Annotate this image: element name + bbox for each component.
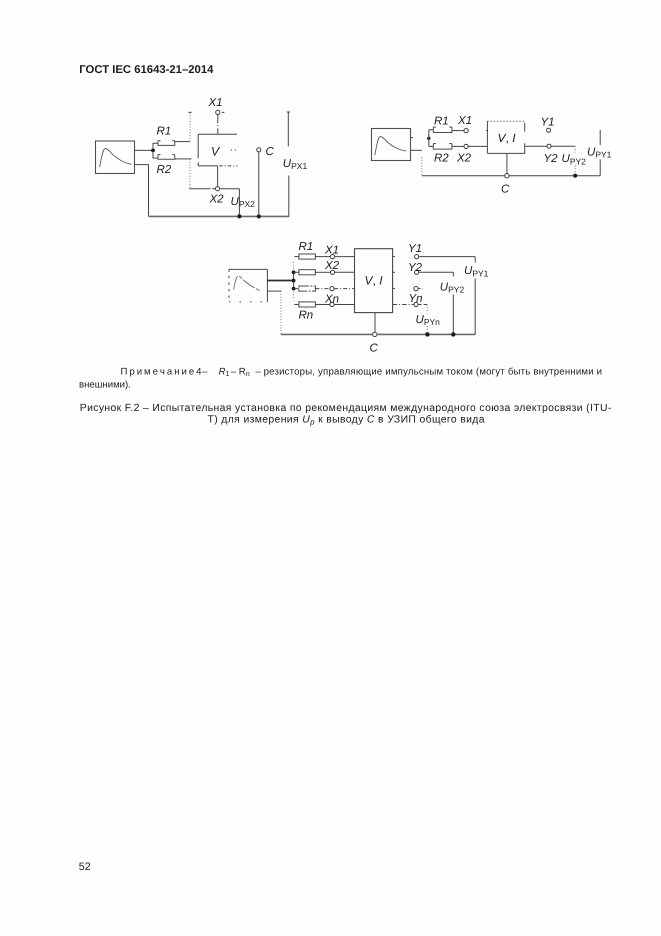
resistor R2 (circuit 3) bbox=[294, 270, 316, 275]
svg-text:UPX1: UPX1 bbox=[283, 158, 308, 171]
terminal Y1 (circuit 3) bbox=[415, 255, 419, 259]
svg-text:R2: R2 bbox=[434, 153, 449, 165]
wire X2 to V,I box (circuit 3) bbox=[335, 271, 355, 273]
svg-text:52: 52 bbox=[79, 861, 91, 873]
svg-text:внешними).: внешними). bbox=[79, 380, 131, 391]
svg-text:Y1: Y1 bbox=[408, 243, 422, 255]
svg-text:X1: X1 bbox=[324, 244, 339, 256]
svg-text:Рисунок F.2 – Испытательная ус: Рисунок F.2 – Испытательная установка по… bbox=[80, 403, 612, 414]
junction dot X2 branch on rail bbox=[237, 214, 241, 218]
wire G1 upper output bbox=[135, 149, 153, 151]
resistor R1 (circuit 3) bbox=[294, 254, 315, 259]
svg-text:X2: X2 bbox=[209, 193, 225, 205]
wire junction to R2 bbox=[153, 152, 158, 159]
wire X2 down to rail bbox=[238, 189, 240, 217]
wire Y3 row stub (circuit 3) bbox=[393, 288, 395, 290]
wire Y2 row stub (circuit 3) bbox=[393, 271, 395, 273]
wire Rn to Xn (circuit 3) bbox=[315, 304, 330, 306]
wire R2 to X2 bbox=[452, 145, 464, 147]
wire V,I box to rail bbox=[506, 153, 508, 173]
wire bottom rail circuit 2 bbox=[422, 175, 600, 177]
terminal X3 (unlabelled, circuit 3) bbox=[330, 287, 334, 291]
junction dot Y2 branch on rail bbox=[573, 174, 577, 178]
svg-text:X1: X1 bbox=[208, 97, 223, 109]
svg-text:V, I: V, I bbox=[365, 273, 384, 287]
svg-text:C: C bbox=[370, 342, 379, 354]
node junction dot (G2 to R1/R2 split) bbox=[427, 137, 430, 140]
wire X1 to V box bbox=[217, 115, 219, 135]
wire UPY2 drop (circuit 3) bbox=[452, 272, 454, 334]
junction dot generator feed bbox=[292, 279, 296, 283]
wire R1 to X1 riser bbox=[175, 141, 190, 143]
resistor R3 (dashed row, circuit 3) bbox=[294, 286, 316, 291]
junction dot C branch on rail bbox=[257, 214, 261, 218]
svg-text:П р и м е ч а н и е 4–R1–Rn–ре: П р и м е ч а н и е 4–R1–Rn–резисторы, у… bbox=[121, 367, 603, 379]
terminal Y3 (unlabelled, circuit 3) bbox=[414, 287, 418, 291]
resistor R2 (circuit 2) bbox=[433, 144, 452, 150]
svg-text:UPY2: UPY2 bbox=[440, 281, 465, 294]
resistor R1 bbox=[158, 141, 175, 146]
junction dot UPY2 on rail bbox=[451, 332, 455, 336]
wire dashed Y2 drop to rail bbox=[574, 146, 576, 176]
svg-text:R1: R1 bbox=[157, 126, 172, 138]
terminal X1 (circuit 3) bbox=[330, 255, 334, 259]
SPD box V (U1) bbox=[198, 134, 237, 166]
svg-text:Y1: Y1 bbox=[541, 116, 555, 128]
wire R1 to X1 (circuit 3) bbox=[315, 256, 330, 258]
wire X2 row horizontal bbox=[190, 187, 240, 190]
junction dot row1/row2 bbox=[292, 270, 296, 274]
resistor R2 bbox=[158, 155, 175, 160]
junction dot row3 bbox=[292, 287, 296, 291]
node junction dot (G1 to R1/R2 split) bbox=[151, 149, 155, 153]
wire C to rail bbox=[258, 152, 260, 217]
wire bottom rail circuit 3 bbox=[281, 333, 475, 335]
svg-text:X2: X2 bbox=[324, 260, 340, 272]
svg-text:V, I: V, I bbox=[498, 131, 517, 145]
wire G2 lower output bbox=[411, 149, 422, 151]
wire junction to R1 bbox=[153, 143, 158, 149]
wire Y3 short dash bbox=[418, 288, 422, 290]
wire junction column (circuit 3) bbox=[293, 262, 295, 299]
svg-text:UPY1: UPY1 bbox=[587, 147, 612, 160]
svg-text:UPY2: UPY2 bbox=[562, 153, 587, 166]
wire junction bracket to R1/R2 bbox=[429, 130, 434, 147]
wire X1 to V,I box (circuit 3) bbox=[335, 256, 355, 258]
svg-text:Yn: Yn bbox=[409, 293, 423, 305]
wire G1 lower output to rail bbox=[135, 165, 149, 217]
wire G2 stub to junction bbox=[411, 137, 414, 139]
wire Y1 row stub (circuit 3) bbox=[393, 256, 395, 258]
measurement line UPX1 upper bbox=[287, 112, 290, 146]
wire V,I box to rail (circuit 3) bbox=[374, 313, 376, 333]
generator G3 (impulse generator box) bbox=[229, 269, 267, 302]
svg-text:R2: R2 bbox=[157, 164, 172, 176]
svg-text:C: C bbox=[501, 184, 510, 196]
wire bottom rail circuit 1 bbox=[149, 215, 290, 217]
resistor Rn (circuit 3) bbox=[294, 302, 315, 307]
wire Xn to V,I box (circuit 3) bbox=[334, 304, 354, 306]
svg-text:UPX2: UPX2 bbox=[231, 196, 256, 209]
terminal C (circuit 2) bbox=[505, 174, 509, 178]
svg-text:Xn: Xn bbox=[324, 293, 339, 305]
svg-text:Т) для измерения Up к выводу С: Т) для измерения Up к выводу С в УЗИП об… bbox=[208, 415, 485, 427]
svg-text:R1: R1 bbox=[299, 241, 314, 253]
terminal X2 (circuit 2) bbox=[464, 144, 468, 148]
wire R2 to X2 (circuit 3) bbox=[315, 271, 330, 273]
wire Yn to UPYn dashed drop bbox=[418, 305, 427, 335]
terminal Yn (circuit 3) bbox=[414, 302, 418, 306]
wire X3 to V,I box (dash-dot) bbox=[334, 288, 354, 290]
wire Y2 row (circuit 2) bbox=[525, 145, 576, 147]
measurement line UPX1 lower bbox=[288, 176, 290, 217]
wire dashed riser to X1 bbox=[188, 112, 224, 141]
svg-text:UPYn: UPYn bbox=[416, 314, 441, 327]
svg-text:X1: X1 bbox=[457, 115, 472, 127]
terminal Xn (circuit 3) bbox=[330, 302, 334, 306]
SPD box V,I (U2) bbox=[487, 121, 524, 153]
terminal C (circuit 1) bbox=[257, 148, 261, 152]
wire G3 lower output bbox=[267, 290, 281, 292]
resistor R1 (circuit 2) bbox=[433, 127, 452, 133]
terminal C (circuit 3) bbox=[373, 332, 377, 336]
svg-text:Y2: Y2 bbox=[544, 153, 559, 165]
terminal X1 bbox=[216, 110, 220, 114]
junction dot UPYn on rail bbox=[425, 332, 429, 336]
SPD box V,I (U3) bbox=[355, 249, 393, 313]
generator G1 (impulse generator box) bbox=[96, 141, 135, 174]
svg-text:ГОСТ IEC 61643-21–2014: ГОСТ IEC 61643-21–2014 bbox=[79, 64, 214, 76]
wire V box to X2 bbox=[217, 166, 219, 187]
wire Yn row (dash-dot, circuit 3) bbox=[393, 304, 414, 306]
terminal X1 (circuit 2) bbox=[464, 129, 468, 133]
terminal X2 (circuit 3) bbox=[330, 270, 334, 274]
wire Y2 to UPY2 drop bbox=[419, 271, 454, 273]
wire stub X1 level on V,I box (circuit 2) bbox=[486, 130, 488, 132]
measurement line UPY1 (circuit 2) bbox=[599, 130, 601, 176]
svg-text:X2: X2 bbox=[456, 153, 472, 165]
svg-text:Rn: Rn bbox=[299, 309, 314, 321]
wire G3 upper output bbox=[267, 280, 292, 282]
wire R3 to terminal (dash-dot) bbox=[315, 288, 330, 290]
wire dashed drop to rail (circuit 2 left) bbox=[421, 157, 423, 176]
wire UPY1 drop (circuit 3) bbox=[474, 257, 476, 335]
wire X2 to V,I box bbox=[468, 145, 487, 147]
terminal Y2 (circuit 2) bbox=[547, 144, 551, 148]
terminal Y2 (circuit 3) bbox=[415, 270, 419, 274]
svg-text:UPY1: UPY1 bbox=[464, 265, 489, 278]
terminal X2 bbox=[216, 187, 220, 191]
svg-text:R1: R1 bbox=[434, 115, 449, 127]
wire dashed drop to rail (circuit 3 left) bbox=[280, 291, 282, 334]
wire Y1 to UPY1 drop bbox=[419, 256, 476, 258]
wire R2 dashed riser to X2 row bbox=[175, 159, 192, 188]
wire R1 to X1 bbox=[452, 130, 464, 132]
generator G2 (impulse generator box) bbox=[372, 129, 411, 161]
svg-text:V: V bbox=[211, 144, 221, 158]
svg-text:C: C bbox=[266, 146, 275, 158]
terminal Y1 (circuit 2) bbox=[547, 128, 551, 132]
